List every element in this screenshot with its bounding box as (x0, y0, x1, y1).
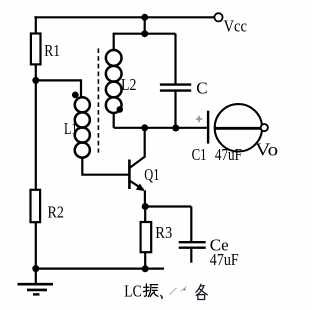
wire R1 bottom to node A (35, 64, 37, 80)
wire capacitor C top stub (174, 34, 176, 84)
wire Ce top stub (190, 207, 192, 242)
junction node C bottom (172, 125, 179, 132)
wire top rail to tank top (144, 17, 146, 33)
caption faint stroke 2 (181, 286, 187, 291)
wire ground bottom rail (36, 268, 164, 270)
svg-text:47uF: 47uF (215, 145, 242, 164)
svg-text:Q1: Q1 (144, 165, 159, 184)
wire R2 bottom to ground rail (35, 222, 37, 268)
junction node top rail (141, 14, 148, 21)
caption glyph zhen (hand-drawn) (143, 284, 158, 297)
capacitor C plates (160, 85, 191, 91)
capacitor C1 plate (207, 111, 209, 144)
wire top rail Vcc (34, 16, 214, 18)
wire capacitor C bottom stub (174, 92, 176, 128)
svg-text:C1: C1 (192, 145, 207, 164)
svg-text:Vcc: Vcc (224, 17, 248, 36)
svg-text:L1: L1 (64, 119, 77, 138)
svg-text:LC: LC (124, 281, 141, 300)
caption faint tick (184, 289, 186, 291)
svg-text:R3: R3 (155, 223, 172, 242)
transistor Q1 collector stroke (129, 156, 145, 168)
L2 phase dot (117, 106, 124, 113)
svg-text:C: C (196, 78, 207, 97)
Vcc terminal circle (214, 13, 222, 21)
caption faint stroke 1 (170, 288, 177, 295)
wire emitter row to Ce (145, 205, 191, 207)
svg-text:47uF: 47uF (210, 250, 239, 269)
output transducer diameter line (215, 127, 263, 130)
caption faint comma mark (160, 295, 163, 300)
wire Q1 collector vertical (144, 128, 146, 157)
wire L2 bottom stub (113, 113, 115, 128)
caption glyph ge (hand-drawn) (196, 284, 207, 299)
resistor R2 (31, 190, 41, 222)
svg-text:L2: L2 (121, 75, 136, 94)
wire Ce bottom stub (190, 249, 192, 263)
junction node R2 ground (32, 265, 39, 272)
transistor Q1 base bar (128, 160, 131, 190)
wire L1 bottom to Q1 base (82, 158, 128, 175)
junction node tank top (141, 30, 148, 37)
transistor Q1 emitter arrowhead (136, 184, 145, 192)
resistor R3 (141, 222, 152, 252)
output terminal small circle (261, 124, 268, 131)
capacitor Ce plates (179, 242, 206, 248)
L1 phase dot (72, 92, 79, 99)
output transducer circle (215, 104, 262, 151)
wire L2 top stub (113, 33, 115, 50)
resistor R1 (31, 34, 41, 65)
svg-text:Vo: Vo (255, 139, 278, 159)
wire tank bottom rail to C1 (114, 127, 207, 129)
C1 polarity plus sign (196, 116, 203, 123)
transistor Q1 emitter stroke (129, 181, 143, 190)
junction node collector/tank bottom (141, 124, 148, 131)
inductor L2 (4 turns) (106, 50, 122, 113)
junction node R1/R2/L1 (32, 77, 39, 84)
ground symbol (18, 269, 54, 295)
wire node A to L1 top (bias feed) (36, 79, 81, 97)
svg-text:R1: R1 (44, 41, 60, 60)
wire tank top rail (114, 33, 176, 35)
wire node A to R2 top (35, 80, 37, 189)
transformer core dashed line (97, 48, 99, 152)
svg-text:R2: R2 (48, 203, 64, 222)
inductor L1 (4 turns) (75, 97, 90, 157)
wire R3 top stub (144, 207, 146, 223)
wire Q1 emitter vertical (144, 190, 146, 206)
wire left vertical from rail to R1 (35, 16, 37, 33)
junction node R3 bottom rail (142, 265, 149, 272)
junction node emitter/R3/Ce (142, 203, 149, 210)
wire R3 bottom stub (144, 252, 146, 269)
